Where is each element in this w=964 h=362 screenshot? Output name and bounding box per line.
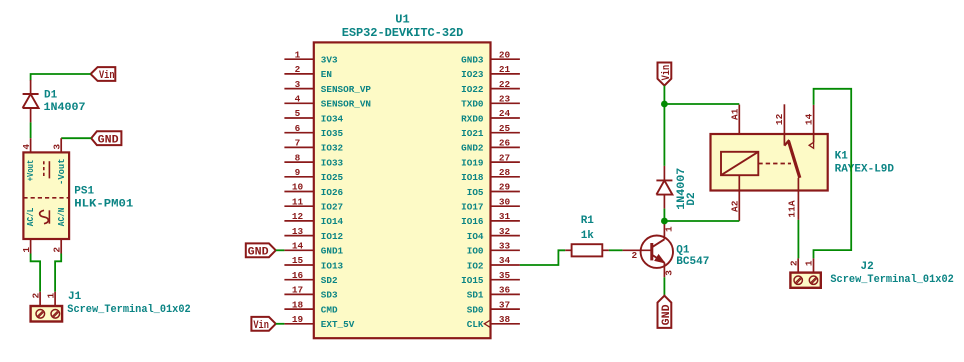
U1 pin 16 (SD2) (284, 270, 338, 286)
PS1 pin 2 (AC/N) (52, 239, 63, 254)
svg-text:4: 4 (295, 94, 301, 105)
PS1 DC symbol (dashed + solid line) (44, 161, 50, 178)
Q1 pin 1 number (664, 226, 675, 232)
svg-text:18: 18 (292, 299, 304, 310)
svg-text:GND: GND (661, 304, 673, 325)
svg-text:12: 12 (774, 113, 785, 125)
R1 value 1k (581, 230, 595, 242)
svg-text:6: 6 (295, 123, 301, 134)
svg-text:5: 5 (295, 108, 301, 119)
J2 screw 1 (809, 276, 817, 284)
wire U1 pin 34 to R1 (520, 250, 565, 265)
svg-text:Screw_Terminal_01x02: Screw_Terminal_01x02 (830, 274, 953, 286)
U1 pin 22 (IO22) (461, 79, 520, 95)
svg-text:1: 1 (804, 260, 815, 266)
svg-text:IO26: IO26 (321, 187, 344, 198)
svg-text:SENSOR_VN: SENSOR_VN (321, 99, 371, 110)
svg-text:25: 25 (499, 123, 511, 134)
MCU U1 ESP32-DEVKITC-32D body (314, 42, 491, 338)
svg-text:D2: D2 (686, 192, 698, 205)
svg-text:1: 1 (45, 292, 56, 298)
screw terminal J2 body (790, 273, 820, 288)
svg-text:IO25: IO25 (321, 172, 344, 183)
svg-text:38: 38 (499, 314, 511, 325)
U1 value ESP32-DEVKITC-32D (342, 26, 464, 40)
svg-text:J1: J1 (68, 291, 82, 303)
U1 pin 4 (SENSOR_VN) (284, 94, 371, 110)
svg-text:1: 1 (21, 247, 32, 253)
relay K1 pin 14 with NO contact (803, 105, 814, 148)
U1 pin 33 (IO0) (467, 241, 520, 257)
relay K1 pin 12 with NC contact (774, 104, 789, 145)
U1 reference label (395, 12, 409, 26)
svg-text:Vin: Vin (661, 65, 673, 81)
J1 value Screw_Terminal_01x02 (67, 304, 190, 316)
D2 reference label (686, 192, 698, 205)
svg-text:IO22: IO22 (461, 84, 484, 95)
svg-text:27: 27 (499, 152, 510, 163)
U1 pin 30 (IO17) (461, 196, 520, 212)
svg-text:IO4: IO4 (467, 231, 484, 242)
U1 pin 18 (CMD) (284, 299, 338, 315)
svg-text:IO13: IO13 (321, 260, 344, 271)
svg-text:9: 9 (295, 167, 301, 178)
U1 pin 38 (CLK) (467, 314, 520, 330)
transistor Q1 BC547 (623, 223, 673, 278)
svg-text:EXT_5V: EXT_5V (321, 319, 355, 330)
PS1 pin 3 (-Vout) (52, 138, 63, 152)
U1 pin 29 (IO5) (467, 182, 520, 198)
Q1 pin 2 number (631, 250, 637, 261)
wire Vin label down to junction (663, 86, 665, 104)
U1 pin 17 (SD3) (284, 285, 338, 301)
wire 11A to J2 pin 2 (797, 220, 799, 259)
U1 pin 28 (IO18) (461, 167, 520, 183)
svg-text:IO15: IO15 (461, 275, 484, 286)
U1 pin 9 (IO25) (284, 167, 343, 183)
D1 value 1N4007 (44, 102, 86, 114)
svg-text:24: 24 (499, 108, 511, 119)
screw terminal J1 body (31, 306, 62, 322)
U1 pin 20 (GND3) (461, 49, 520, 65)
svg-text:3V3: 3V3 (321, 55, 338, 66)
svg-text:IO0: IO0 (467, 246, 484, 257)
svg-text:GND2: GND2 (461, 143, 484, 154)
wire relay A2 to junction 2 (664, 220, 739, 222)
Q1 pin 3 number (664, 270, 675, 276)
svg-text:K1: K1 (835, 151, 849, 163)
U1 pin 32 (IO4) (467, 226, 520, 242)
K1 value RAYEX-L9D (835, 163, 895, 175)
U1 pin 8 (IO33) (284, 152, 343, 168)
svg-text:36: 36 (499, 285, 511, 296)
U1 pin 14 (GND1) (284, 241, 343, 257)
svg-text:2: 2 (788, 260, 799, 266)
U1 pin 31 (IO16) (461, 211, 520, 227)
U1 pin 21 (IO23) (461, 64, 520, 80)
svg-text:34: 34 (499, 255, 511, 266)
svg-text:35: 35 (499, 270, 511, 281)
svg-text:IO14: IO14 (321, 216, 344, 227)
svg-text:20: 20 (499, 49, 511, 60)
svg-text:SD0: SD0 (467, 304, 484, 315)
svg-text:2: 2 (631, 250, 637, 261)
global label Vin (U1 pin 19) (251, 317, 275, 332)
svg-text:8: 8 (295, 152, 301, 163)
svg-text:28: 28 (499, 167, 511, 178)
svg-text:Vin: Vin (99, 70, 115, 82)
U1 pin 34 (IO2) (467, 255, 520, 271)
svg-text:23: 23 (499, 94, 511, 105)
svg-text:17: 17 (292, 285, 303, 296)
svg-text:7: 7 (295, 138, 301, 149)
J2 screw 2 (794, 276, 802, 284)
U1 pin 23 (TXD0) (461, 94, 520, 110)
J1 screw 2 (36, 310, 45, 319)
PS1 +Vout pin name (25, 160, 36, 182)
U1 pin 19 (EXT_5V) (284, 314, 354, 330)
svg-text:1N4007: 1N4007 (44, 102, 86, 114)
svg-text:10: 10 (292, 182, 304, 193)
svg-text:3: 3 (295, 79, 301, 90)
svg-text:U1: U1 (395, 12, 409, 26)
U1 pin 2 (EN) (284, 64, 332, 80)
U1 pin 12 (IO14) (284, 211, 343, 227)
svg-text:3: 3 (664, 270, 675, 276)
U1 pin 25 (IO21) (461, 123, 520, 139)
svg-text:IO19: IO19 (461, 157, 484, 168)
wire Q1 emitter to GND label (663, 277, 665, 295)
K1 reference label (835, 151, 849, 163)
U1 pin 7 (IO32) (284, 138, 343, 154)
svg-text:SD2: SD2 (321, 275, 338, 286)
svg-text:IO18: IO18 (461, 172, 484, 183)
U1 pin 15 (IO13) (284, 255, 343, 271)
svg-text:GND: GND (98, 135, 119, 147)
diode D2 (flyback) (656, 166, 672, 209)
PS1 pin 1 (AC/L) (21, 239, 32, 254)
J2 reference label (861, 261, 874, 273)
U1 pin 13 (IO12) (284, 226, 343, 242)
svg-text:A2: A2 (729, 200, 740, 212)
junction node Vin/A1/D2 (661, 101, 668, 108)
wire GND label to PS1 pin 3 (61, 137, 91, 139)
PS1 -Vout pin name (56, 158, 67, 185)
svg-text:32: 32 (499, 226, 511, 237)
U1 pin 3 (SENSOR_VP) (284, 79, 371, 95)
svg-text:29: 29 (499, 182, 511, 193)
U1 pin 35 (IO15) (461, 270, 520, 286)
U1 pin 24 (RXD0) (461, 108, 520, 124)
global label GND (left, PS1 -Vout) (91, 131, 121, 146)
global label Vin (above relay) (658, 63, 673, 86)
J1 pin 2 (30, 292, 41, 306)
relay K1 pin A1 (729, 105, 740, 152)
svg-text:IO27: IO27 (321, 202, 343, 213)
wire PS1 pin1 to J1 pin2 (31, 254, 40, 292)
diode D1 (23, 80, 39, 122)
PS1 AC sine symbol (40, 210, 50, 223)
svg-text:EN: EN (321, 69, 332, 80)
svg-text:15: 15 (292, 255, 304, 266)
U1 pin 6 (IO35) (284, 123, 343, 139)
resistor R1 (565, 244, 609, 256)
wire relay pin 14 to J2 pin 1 (814, 89, 852, 259)
U1 pin 26 (GND2) (461, 138, 520, 154)
K1 coil (721, 152, 758, 175)
U1 pin 27 (IO19) (461, 152, 520, 168)
J1 reference label (68, 291, 82, 303)
svg-text:16: 16 (292, 270, 304, 281)
svg-text:IO12: IO12 (321, 231, 344, 242)
PS1 isolation dashed separator (23, 197, 69, 199)
U1 pin 11 (IO27) (284, 196, 343, 212)
J2 value Screw_Terminal_01x02 (830, 274, 953, 286)
PS1 pin 4 (+Vout) (21, 138, 32, 152)
svg-text:30: 30 (499, 196, 511, 207)
svg-text:1k: 1k (581, 230, 595, 242)
svg-text:J2: J2 (861, 261, 874, 273)
J1 screw 1 (51, 310, 60, 319)
svg-text:PS1: PS1 (74, 185, 94, 197)
svg-text:14: 14 (292, 241, 304, 252)
Q1 value BC547 (676, 256, 709, 268)
U1 pin 36 (SD1) (467, 285, 520, 301)
svg-text:TXD0: TXD0 (461, 99, 484, 110)
svg-text:1: 1 (295, 49, 301, 60)
svg-text:21: 21 (499, 64, 511, 75)
svg-text:11: 11 (292, 196, 304, 207)
svg-text:HLK-PM01: HLK-PM01 (74, 198, 133, 210)
wire junction to D2 cathode (663, 104, 665, 166)
PS1 value HLK-PM01 (74, 198, 133, 210)
wire GND label to U1 pin 14 (276, 249, 285, 251)
svg-text:2: 2 (30, 292, 41, 298)
svg-text:A1: A1 (729, 108, 740, 120)
svg-text:2: 2 (52, 247, 63, 253)
svg-text:2: 2 (295, 64, 301, 75)
svg-text:GND3: GND3 (461, 55, 484, 66)
svg-text:GND: GND (248, 247, 269, 259)
svg-text:SD1: SD1 (467, 290, 484, 301)
U1 pin 5 (IO34) (284, 108, 343, 124)
Q1 reference label (676, 244, 690, 256)
svg-text:14: 14 (803, 113, 814, 125)
svg-text:IO16: IO16 (461, 216, 484, 227)
relay K1 pin A2 (729, 175, 740, 221)
PS1 AC/N pin name (56, 208, 67, 227)
svg-text:IO35: IO35 (321, 128, 344, 139)
svg-text:IO33: IO33 (321, 157, 344, 168)
svg-text:Vin: Vin (253, 320, 269, 332)
U1 pin 37 (SD0) (467, 299, 520, 315)
power module PS1 HLK-PM01 body (23, 152, 69, 239)
global label Vin (top left) (91, 67, 116, 82)
wire PS1 pin2 to J1 pin1 (55, 254, 61, 292)
svg-text:ESP32-DEVKITC-32D: ESP32-DEVKITC-32D (342, 26, 464, 40)
svg-text:SD3: SD3 (321, 290, 338, 301)
PS1 reference label (74, 185, 94, 197)
svg-text:13: 13 (292, 226, 304, 237)
svg-text:IO5: IO5 (467, 187, 484, 198)
global label GND (U1 pin 14) (246, 243, 276, 258)
U1 pin 10 (IO26) (284, 182, 343, 198)
svg-text:Q1: Q1 (676, 244, 690, 256)
svg-text:33: 33 (499, 241, 511, 252)
relay K1 switch arm (788, 141, 799, 178)
svg-text:RAYEX-L9D: RAYEX-L9D (835, 163, 895, 175)
svg-text:D1: D1 (44, 89, 58, 101)
svg-text:IO23: IO23 (461, 69, 484, 80)
svg-text:IO21: IO21 (461, 128, 484, 139)
svg-text:3: 3 (52, 144, 63, 150)
svg-text:26: 26 (499, 138, 511, 149)
svg-text:IO2: IO2 (467, 260, 484, 271)
svg-text:4: 4 (21, 144, 32, 150)
wire D1 anode to PS1 pin 4 (30, 122, 32, 138)
svg-text:22: 22 (499, 79, 511, 90)
svg-text:GND1: GND1 (321, 246, 344, 257)
wire Vin label to U1 pin 19 (276, 323, 285, 325)
D1 reference label (44, 89, 58, 101)
U1 pin 1 (3V3) (284, 49, 338, 65)
PS1 AC/L pin name (25, 207, 36, 226)
svg-text:11A: 11A (787, 200, 798, 217)
D2 value 1N4007 (676, 168, 688, 210)
svg-text:SENSOR_VP: SENSOR_VP (321, 84, 372, 95)
svg-text:IO17: IO17 (461, 202, 483, 213)
wire Vin label to D1 cathode (31, 74, 91, 81)
svg-text:IO32: IO32 (321, 143, 344, 154)
svg-text:R1: R1 (581, 215, 595, 227)
junction node A2/collector/D2 (661, 218, 668, 225)
svg-text:RXD0: RXD0 (461, 113, 484, 124)
svg-text:12: 12 (292, 211, 304, 222)
svg-text:AC/N: AC/N (56, 208, 67, 227)
J1 pin 1 (45, 292, 56, 306)
svg-text:CMD: CMD (321, 304, 338, 315)
J2 pin 1 (804, 258, 815, 272)
svg-text:BC547: BC547 (676, 256, 709, 268)
svg-text:1: 1 (664, 226, 675, 232)
wire junction to relay A1 (664, 103, 739, 105)
svg-text:31: 31 (499, 211, 511, 222)
global label GND (below Q1) (658, 296, 673, 328)
relay K1 pin 11A (common) (787, 178, 799, 220)
svg-text:-Vout: -Vout (56, 158, 67, 185)
svg-text:+Vout: +Vout (25, 160, 36, 182)
relay K1 RAYEX-L9D body (711, 134, 828, 191)
svg-text:IO34: IO34 (321, 113, 344, 124)
wire D2 anode to junction 2 (663, 209, 665, 221)
svg-text:CLK: CLK (467, 319, 484, 330)
svg-text:Screw_Terminal_01x02: Screw_Terminal_01x02 (67, 304, 190, 316)
svg-text:37: 37 (499, 299, 510, 310)
J2 pin 2 (788, 258, 799, 272)
svg-text:AC/L: AC/L (25, 207, 36, 226)
svg-text:19: 19 (292, 314, 304, 325)
R1 reference label (581, 215, 595, 227)
wire R1 to Q1 base (609, 249, 623, 251)
K1 coil-contact dashed link (758, 163, 791, 165)
